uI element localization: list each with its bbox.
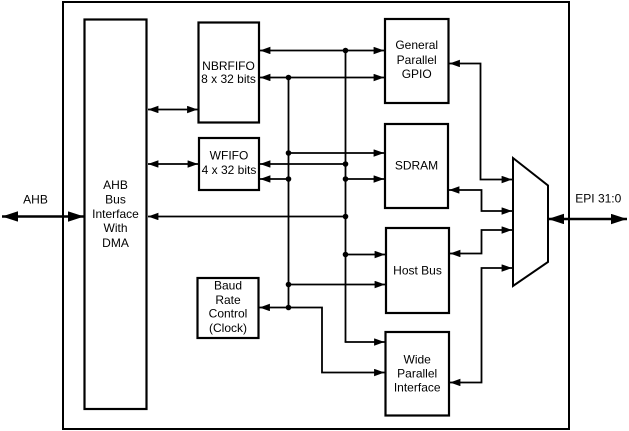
- svg-text:Host Bus: Host Bus: [393, 263, 442, 277]
- svg-text:Bus: Bus: [105, 193, 126, 207]
- mux trapezoid: [513, 158, 548, 286]
- junction dot bus1 y=284.5: [286, 282, 292, 288]
- wire SDRAM to mux (bidirectional): [449, 190, 512, 211]
- svg-text:AHB: AHB: [103, 178, 128, 192]
- svg-text:Parallel: Parallel: [397, 367, 437, 381]
- svg-text:4 x 32 bits: 4 x 32 bits: [202, 163, 257, 177]
- junction dot bus2 y=216.5: [343, 214, 349, 220]
- junction dot bus1 top y=77.5: [286, 75, 292, 81]
- junction dot bus2 y=254.5: [343, 252, 349, 258]
- svg-text:Baud: Baud: [214, 278, 242, 292]
- wire bus2 to Host Bus (y=254.5): [346, 254, 386, 256]
- svg-text:General: General: [395, 38, 438, 52]
- wire bus1 to Baud Rate Control (y=307.5): [260, 307, 289, 309]
- svg-text:With: With: [104, 221, 128, 235]
- wire bus1 elbow to Wide Parallel Interface: [289, 308, 385, 373]
- svg-text:WFIFO: WFIFO: [210, 148, 249, 162]
- wire bus2 to SDRAM (y=179): [346, 178, 385, 180]
- svg-text:DMA: DMA: [102, 236, 129, 250]
- block AHB Bus Interface With DMA: [85, 20, 147, 410]
- svg-text:Control: Control: [209, 306, 248, 320]
- junction dot bus1 y=153: [286, 150, 292, 156]
- block Baud Rate Control (Clock): [198, 278, 259, 338]
- block General Parallel GPIO: [385, 19, 449, 103]
- svg-text:Rate: Rate: [215, 293, 241, 307]
- wire AHB box to WFIFO (bidirectional): [148, 163, 198, 165]
- vertical bus line 2 (x=345.5): [345, 51, 347, 343]
- junction dot bus2 y=164: [343, 161, 349, 167]
- external EPI 31:0 bidirectional arrow: [548, 218, 627, 221]
- wire GPIO to mux (bidirectional): [450, 64, 513, 180]
- svg-text:Parallel: Parallel: [397, 53, 437, 67]
- svg-text:AHB: AHB: [23, 193, 48, 207]
- svg-text:EPI 31:0: EPI 31:0: [575, 191, 621, 205]
- svg-text:(Clock): (Clock): [209, 321, 247, 335]
- block Wide Parallel Interface: [386, 332, 450, 416]
- svg-text:8 x 32 bits: 8 x 32 bits: [201, 72, 256, 86]
- junction dot bus2 y=179: [343, 176, 349, 182]
- block SDRAM: [385, 124, 448, 208]
- wire bus2 elbow to Wide Parallel Interface: [346, 340, 385, 343]
- junction dot bus2 top y=50.5: [343, 48, 349, 54]
- wire Wide Parallel Interface to mux (bidirectional): [450, 268, 512, 383]
- wire NBRFIFO to GPIO (top, bidirectional): [260, 50, 384, 52]
- svg-text:Interface: Interface: [92, 207, 139, 221]
- external AHB bidirectional arrow: [2, 215, 84, 218]
- outer border frame of EPI block: [63, 2, 569, 429]
- block NBRFIFO 8 x 32 bits: [199, 23, 260, 123]
- wire bus2 to AHB box (y=216.5): [148, 216, 346, 218]
- svg-text:SDRAM: SDRAM: [395, 158, 438, 172]
- wire AHB box to NBRFIFO (bidirectional): [148, 109, 198, 111]
- block Host Bus: [386, 228, 449, 313]
- svg-text:Interface: Interface: [394, 381, 441, 395]
- svg-text:GPIO: GPIO: [402, 67, 432, 81]
- svg-text:Wide: Wide: [404, 353, 432, 367]
- svg-text:NBRFIFO: NBRFIFO: [202, 59, 255, 73]
- junction dot bus1 y=307.5: [286, 305, 292, 311]
- vertical bus line 1 (x=288.5): [288, 78, 290, 308]
- block WFIFO 4 x 32 bits: [199, 138, 259, 190]
- wire bus1 to Host Bus (y=284.5): [289, 284, 386, 286]
- wire Host Bus to mux (bidirectional): [450, 230, 512, 254]
- wire bus1 to WFIFO (y=179): [260, 178, 289, 180]
- junction dot bus1 y=179: [286, 176, 292, 182]
- wire bus1 to SDRAM (y=153): [289, 152, 385, 154]
- wire bus2 to WFIFO (y=164): [260, 163, 346, 165]
- wire NBRFIFO to GPIO (second, bidirectional): [260, 77, 384, 79]
